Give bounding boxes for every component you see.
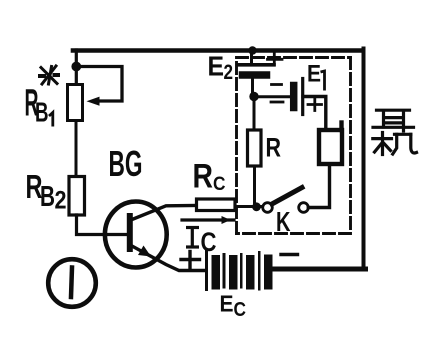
label char JI (机) xyxy=(373,133,417,155)
svg-text:R: R xyxy=(193,158,214,196)
transistor collector line and wire to RC xyxy=(132,206,197,220)
svg-text:2: 2 xyxy=(55,187,67,215)
label IC xyxy=(186,228,199,248)
resistor R xyxy=(248,130,262,166)
transistor base bar xyxy=(127,216,133,249)
emitter arrowhead xyxy=(138,246,151,257)
svg-text:C: C xyxy=(201,227,217,257)
battery EC plates xyxy=(207,252,269,290)
node top-left junction xyxy=(71,62,81,72)
battery E1 xyxy=(290,86,298,108)
svg-text:E: E xyxy=(208,51,225,82)
svg-text:C: C xyxy=(234,299,247,321)
transistor BG circle xyxy=(105,202,167,268)
svg-text:R: R xyxy=(266,133,282,163)
transistor emitter line and wire to EC xyxy=(131,246,206,271)
wire RB2 to transistor base xyxy=(77,215,129,235)
svg-text:C: C xyxy=(213,174,226,195)
plus sign E2 xyxy=(268,54,283,65)
svg-text:B: B xyxy=(35,97,49,128)
dashed enclosure box xyxy=(237,58,351,234)
plus sign EC xyxy=(181,252,200,268)
wire right rail xyxy=(362,49,366,269)
resistor RB1 (potentiometer body) xyxy=(68,85,83,121)
wire stub node to top rail xyxy=(75,50,78,66)
figure number circle 1 xyxy=(48,259,96,307)
node A junction xyxy=(249,92,258,101)
wiper arrowhead RB1 xyxy=(87,97,100,106)
wire node A to R xyxy=(253,97,256,130)
switch K lever xyxy=(272,188,302,205)
node E2 on top rail xyxy=(248,46,256,54)
node B junction xyxy=(252,202,261,211)
wire top rail xyxy=(73,48,361,53)
svg-text:B: B xyxy=(40,181,55,213)
wire node to RB1 xyxy=(75,66,78,85)
current arrow IC xyxy=(182,218,234,221)
svg-text:E: E xyxy=(307,61,321,88)
earphone transducer xyxy=(319,130,342,164)
battery E2 xyxy=(250,50,253,64)
label char ER (耳) xyxy=(373,110,414,131)
resistor RB2 xyxy=(69,177,85,216)
svg-text:BG: BG xyxy=(109,143,143,184)
wire RC to node B xyxy=(235,205,262,208)
switch K right contact xyxy=(299,203,309,213)
minus sign EC xyxy=(281,253,298,256)
switch K left contact xyxy=(263,203,273,213)
wire E1 to earphone xyxy=(303,97,326,131)
wire node A to E1 xyxy=(254,95,290,98)
wire RB1 wiper loop xyxy=(81,67,122,102)
plus sign E1 xyxy=(308,99,322,111)
asterisk adjustable mark xyxy=(40,66,58,84)
resistor RC xyxy=(197,199,236,211)
svg-text:E: E xyxy=(220,291,234,317)
wire RB1 to RB2 xyxy=(75,121,78,177)
wire R to node B xyxy=(253,166,256,204)
svg-text:2: 2 xyxy=(224,60,234,84)
wire bottom rail xyxy=(271,267,366,272)
svg-text:K: K xyxy=(276,206,291,237)
wire switch to earphone xyxy=(308,165,329,208)
minus marks E1 xyxy=(272,83,282,86)
